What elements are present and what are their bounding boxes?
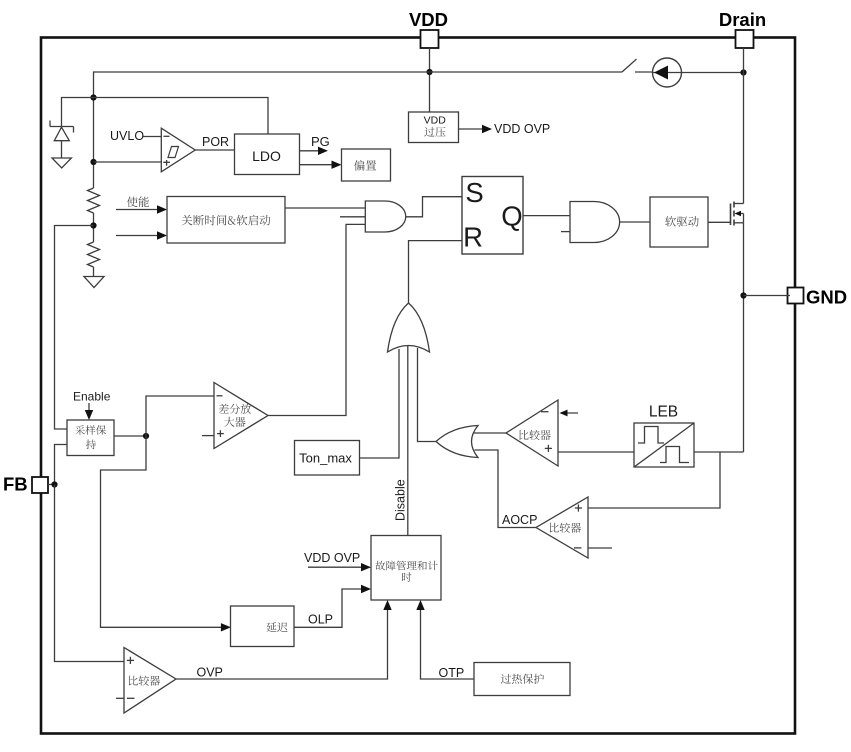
wire LEB to MOSFET source sense — [694, 451, 744, 453]
wire left VDD rail — [93, 71, 95, 188]
zener diode D1 — [50, 126, 74, 128]
wire zener branch — [62, 98, 94, 127]
svg-text:VDD: VDD — [424, 115, 447, 127]
ground below divider — [84, 277, 104, 288]
svg-text:FB: FB — [3, 474, 28, 495]
arrow Enable into sample-hold — [88, 403, 90, 414]
comparator U5 AOCP (bi jiao qi) — [536, 497, 588, 558]
or-gate G3 — [388, 303, 430, 352]
pin VDD — [421, 30, 439, 48]
block over-temperature protection — [474, 663, 570, 696]
wire divider to non-inverting input — [94, 161, 162, 163]
wire Drain pin to MOSFET drain — [743, 48, 745, 204]
and-gate G2 — [570, 202, 620, 243]
svg-text:GND: GND — [806, 287, 847, 308]
wire G1 output to S input — [406, 197, 462, 217]
node Drain rail junction — [740, 69, 746, 75]
svg-text:Drain: Drain — [719, 9, 766, 30]
wire to ground — [93, 267, 95, 277]
arrow VDD OVP into fault block — [308, 566, 363, 568]
pin GND — [788, 288, 804, 304]
switch blade — [622, 59, 637, 72]
svg-text:LDO: LDO — [252, 148, 281, 164]
wire U6 minus stub — [116, 697, 124, 699]
node error amp input junction — [143, 433, 149, 439]
comparator U4 (bi jiao qi) — [506, 400, 558, 466]
arrow enable input 1 — [116, 209, 160, 211]
wire U4 plus input to LEB — [558, 451, 634, 453]
svg-text:VDD: VDD — [409, 9, 448, 30]
block LEB — [634, 423, 694, 467]
svg-text:Ton_max: Ton_max — [299, 450, 352, 465]
node FB junction — [51, 481, 57, 487]
ground below zener — [52, 158, 71, 168]
wire Disable to G3 — [407, 346, 409, 536]
wire to delay block — [101, 436, 223, 627]
node LDO feed junction — [90, 94, 96, 100]
wire VDD pin to VDD-OVP block — [429, 48, 431, 112]
resistor R1 — [88, 188, 100, 213]
wire UVLO to inverting input — [142, 136, 161, 138]
node GND junction — [740, 292, 746, 298]
current source CS1 — [653, 58, 682, 87]
block bias (pian zhi) — [342, 149, 391, 181]
latch U2 SR — [462, 177, 523, 255]
wire POR comparator output to LDO — [195, 149, 234, 151]
wire OLP into fault block — [294, 589, 363, 627]
svg-text:OLP: OLP — [308, 613, 333, 627]
wire FB to sample-hold — [55, 445, 68, 485]
svg-text:VDD OVP: VDD OVP — [304, 551, 360, 565]
node divider midpoint — [90, 222, 96, 228]
svg-text:S: S — [465, 177, 483, 208]
block Ton_max — [295, 441, 360, 476]
op-amp U3 differential amplifier — [214, 383, 268, 449]
wire comparator to G4 — [474, 432, 507, 434]
wire to GND pin — [744, 295, 791, 297]
wire OVP output to fault block — [176, 608, 388, 679]
arrow input 2 — [116, 235, 160, 237]
wire G1 lower input from error amp — [268, 224, 365, 415]
block sample hold (cai yang bao chi) — [67, 420, 114, 456]
resistor R2 — [88, 242, 100, 267]
arrow VDD OVP output — [459, 128, 485, 130]
wire sense to AOCP plus input — [588, 452, 720, 508]
wire driver to gate — [708, 221, 731, 223]
comparator U1 UVLO — [161, 128, 195, 172]
transistor Q1 power MOSFET — [730, 204, 732, 226]
svg-text:Q: Q — [501, 201, 522, 232]
wire Q output to AND gate 2 — [523, 215, 570, 217]
arrow adjustable reference into U4 — [561, 412, 578, 414]
wire top rail — [94, 71, 623, 73]
svg-text:AOCP: AOCP — [502, 513, 537, 527]
and-gate G1 — [365, 201, 405, 232]
wire U5 output to G4 — [475, 450, 537, 528]
svg-text:UVLO: UVLO — [110, 129, 144, 143]
svg-text:Disable: Disable — [394, 479, 408, 521]
block delay (yan chi) — [231, 606, 295, 647]
svg-text:OTP: OTP — [439, 666, 465, 680]
svg-text:Enable: Enable — [73, 389, 111, 403]
svg-text:LEB: LEB — [649, 404, 678, 421]
wire U5 minus stub — [588, 547, 612, 549]
block off-time & soft start — [167, 197, 285, 244]
wire to error amp inverting input — [146, 396, 214, 436]
or-gate G4 — [436, 426, 478, 458]
label shi neng (enable) — [127, 196, 149, 207]
comparator U6 OVP (bi jiao qi) — [124, 648, 176, 714]
arrow LDO to bias — [300, 164, 334, 166]
wire between divider resistors — [93, 213, 95, 242]
block LDO — [235, 134, 300, 175]
wire G2 output to soft driver — [620, 221, 650, 223]
svg-text:VDD OVP: VDD OVP — [494, 122, 550, 136]
arrow PG output — [300, 150, 321, 152]
wire OTP to fault block — [421, 608, 475, 679]
wire switch to current source — [635, 71, 653, 73]
node VDD rail junction — [426, 69, 432, 75]
svg-text:R: R — [463, 222, 483, 253]
pin FB — [32, 477, 48, 493]
pin Drain — [736, 30, 754, 48]
wire FB pin stub — [48, 484, 57, 486]
wire error amp plus stub — [202, 435, 214, 437]
block soft drive (ruan qu dong) — [650, 197, 708, 247]
wire G4 output to G3 — [418, 348, 437, 442]
wire G1 middle input stub — [340, 216, 365, 218]
wire VDD to LDO top — [94, 98, 269, 135]
wire FB down to OVP comparator — [55, 485, 125, 662]
block fault management and timing — [371, 536, 441, 601]
wire R input — [409, 241, 463, 303]
svg-text:POR: POR — [202, 135, 229, 149]
wire G2 lower input stub — [561, 231, 570, 233]
svg-text:OVP: OVP — [197, 666, 223, 680]
svg-text:PG: PG — [311, 134, 330, 149]
node UVLO sense junction — [90, 159, 96, 165]
wire Ton_max to G3 — [360, 349, 400, 458]
wire divider mid to sample-hold — [55, 226, 94, 430]
block VDD overvoltage — [409, 112, 459, 143]
wire MOSFET source down to sense — [743, 223, 745, 452]
wire sample-hold output — [114, 435, 146, 437]
wire soft start to AND gate — [285, 207, 365, 209]
